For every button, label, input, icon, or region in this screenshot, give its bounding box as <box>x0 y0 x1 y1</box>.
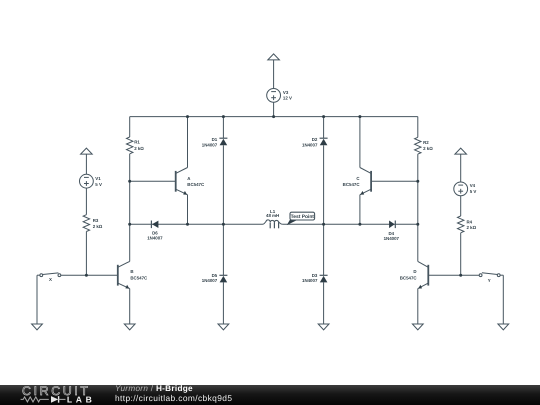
svg-text:1N4007: 1N4007 <box>302 142 318 147</box>
wire top bus to R1 <box>129 117 131 137</box>
svg-text:2 kΩ: 2 kΩ <box>93 224 103 229</box>
wire collector A to top bus <box>187 117 189 168</box>
svg-text:1N4007: 1N4007 <box>202 278 218 283</box>
power flag VCC above V3 <box>268 54 280 60</box>
wire R1 to base node A / mid bus / collector B <box>129 154 131 262</box>
wire V1 to R3 <box>85 188 87 215</box>
voltage source V1 <box>80 174 94 188</box>
wire base of Q D <box>428 274 479 276</box>
resistor R1 <box>127 137 133 154</box>
ground under B <box>124 324 135 330</box>
node mid bus / D1-D5 column <box>222 223 225 226</box>
svg-text:B: B <box>130 269 133 274</box>
logo diode symbol <box>51 396 58 403</box>
svg-text:V4: V4 <box>470 183 476 188</box>
svg-text:LAB: LAB <box>67 394 92 404</box>
node top bus / collector A <box>186 115 189 118</box>
wire V4 flag to source <box>460 154 462 182</box>
wire D2 to mid bus <box>323 145 325 224</box>
node top bus / D1 <box>222 115 225 118</box>
wire V4 to R4 <box>460 196 462 216</box>
transistor B BC547C <box>117 265 119 286</box>
node base D / R4 branch <box>459 274 462 277</box>
transistor D BC547C <box>427 265 429 286</box>
ground under D3 <box>318 324 329 330</box>
node top bus / collector C <box>358 115 361 118</box>
svg-text:2 kΩ: 2 kΩ <box>467 225 477 230</box>
svg-text:1N4007: 1N4007 <box>302 278 318 283</box>
svg-text:12 V: 12 V <box>283 96 292 101</box>
switch X <box>37 274 40 276</box>
svg-text:BC547C: BC547C <box>343 182 361 187</box>
svg-text:http://circuitlab.com/cbkq9d5: http://circuitlab.com/cbkq9d5 <box>115 393 232 403</box>
svg-text:1N4007: 1N4007 <box>384 236 400 241</box>
wire D5 to ground <box>222 282 224 324</box>
voltage source V4 <box>454 182 468 196</box>
wire R3 to X bus <box>85 232 87 276</box>
node mid bus / R2 branch <box>416 223 419 226</box>
svg-text:D: D <box>413 269 416 274</box>
logo resistor symbol <box>21 397 49 402</box>
wire switch Y to ground <box>502 275 504 324</box>
wire R2 to base node C / mid bus / collector D <box>417 154 419 261</box>
inductor L1 48 mH <box>263 220 283 224</box>
wire base of Q B <box>61 274 118 276</box>
wire emitter D to ground <box>417 289 419 324</box>
svg-text:R4: R4 <box>467 220 473 225</box>
power flag above V4 <box>455 148 467 154</box>
ground under D emitter <box>412 324 423 330</box>
svg-text:D1: D1 <box>212 137 218 142</box>
wire top bus to R2 <box>417 117 419 138</box>
ground under X <box>32 324 43 330</box>
wire top bus <box>130 116 418 118</box>
wire base of Q A <box>130 180 176 182</box>
wire top bus to D1 <box>222 117 224 139</box>
node top bus / V3 <box>272 115 275 118</box>
wire top bus to D2 <box>323 117 325 139</box>
node mid bus / D2-D3 column <box>322 223 325 226</box>
wire switch X to ground <box>36 275 38 324</box>
resistor R4 <box>458 216 464 233</box>
diode D3 1N4007 <box>320 274 328 276</box>
svg-text:R2: R2 <box>423 140 429 145</box>
node base B / R3 branch <box>85 274 88 277</box>
transistor C BC547C <box>370 171 372 192</box>
diode D4 1N4007 <box>394 221 396 229</box>
svg-text:5 V: 5 V <box>95 182 102 187</box>
node top bus / D2 <box>322 115 325 118</box>
ground under Y <box>498 324 509 330</box>
svg-text:2 kΩ: 2 kΩ <box>423 146 433 151</box>
wire D3 to ground <box>323 282 325 324</box>
svg-text:BC547C: BC547C <box>187 182 205 187</box>
wire D1 to mid bus <box>222 145 224 224</box>
node mid bus / emitter C <box>358 223 361 226</box>
node mid bus / R1 branch <box>128 223 131 226</box>
power flag above V1 <box>81 148 93 154</box>
wire mid bus to D5 <box>222 224 224 275</box>
switch Y <box>479 274 482 277</box>
svg-text:BC547C: BC547C <box>400 276 418 281</box>
svg-text:V1: V1 <box>95 176 101 181</box>
ground under D5 <box>218 324 229 330</box>
wire V3 to top bus <box>273 102 275 116</box>
diode D1 1N4007 <box>219 137 227 139</box>
diode D5 1N4007 <box>219 274 227 276</box>
wire collector C to top bus <box>359 117 361 168</box>
resistor R2 <box>415 137 421 154</box>
resistor R3 <box>83 215 89 232</box>
svg-text:1N4007: 1N4007 <box>147 236 163 241</box>
svg-text:Y: Y <box>488 278 491 283</box>
svg-text:Yurmorn / H-Bridge: Yurmorn / H-Bridge <box>115 384 193 393</box>
wire mid bus right segment <box>283 223 418 225</box>
wire emitter A to mid bus <box>187 195 189 225</box>
wire V1 flag to source <box>85 154 87 174</box>
diode D2 1N4007 <box>320 137 328 139</box>
wire emitter C to mid bus <box>359 195 361 225</box>
svg-text:2 kΩ: 2 kΩ <box>134 146 144 151</box>
transistor A BC547C <box>175 171 177 192</box>
svg-text:V3: V3 <box>283 90 289 95</box>
diode D6 1N4007 <box>150 221 152 229</box>
svg-text:R1: R1 <box>134 140 140 145</box>
footer bar <box>0 385 540 405</box>
svg-text:5 V: 5 V <box>470 189 477 194</box>
wire mid bus left segment <box>130 223 263 225</box>
node mid bus / emitter A <box>186 223 189 226</box>
wire V3 flag to source <box>273 60 275 89</box>
node base A / R1 branch <box>128 180 131 183</box>
svg-text:1N4007: 1N4007 <box>202 142 218 147</box>
svg-text:X: X <box>49 277 52 282</box>
node base C / R2 branch <box>416 180 419 183</box>
svg-text:R3: R3 <box>93 218 99 223</box>
svg-text:48 mH: 48 mH <box>266 213 279 218</box>
wire emitter B to ground <box>129 289 131 324</box>
voltage source V3 <box>267 89 281 103</box>
svg-text:Test Point: Test Point <box>291 214 315 220</box>
svg-text:BC547C: BC547C <box>130 276 148 281</box>
wire R4 to Y bus <box>460 233 462 275</box>
wire base of Q C <box>371 180 418 182</box>
wire mid bus to D3 <box>323 224 325 275</box>
svg-text:D2: D2 <box>312 137 318 142</box>
test point flag <box>287 218 296 225</box>
